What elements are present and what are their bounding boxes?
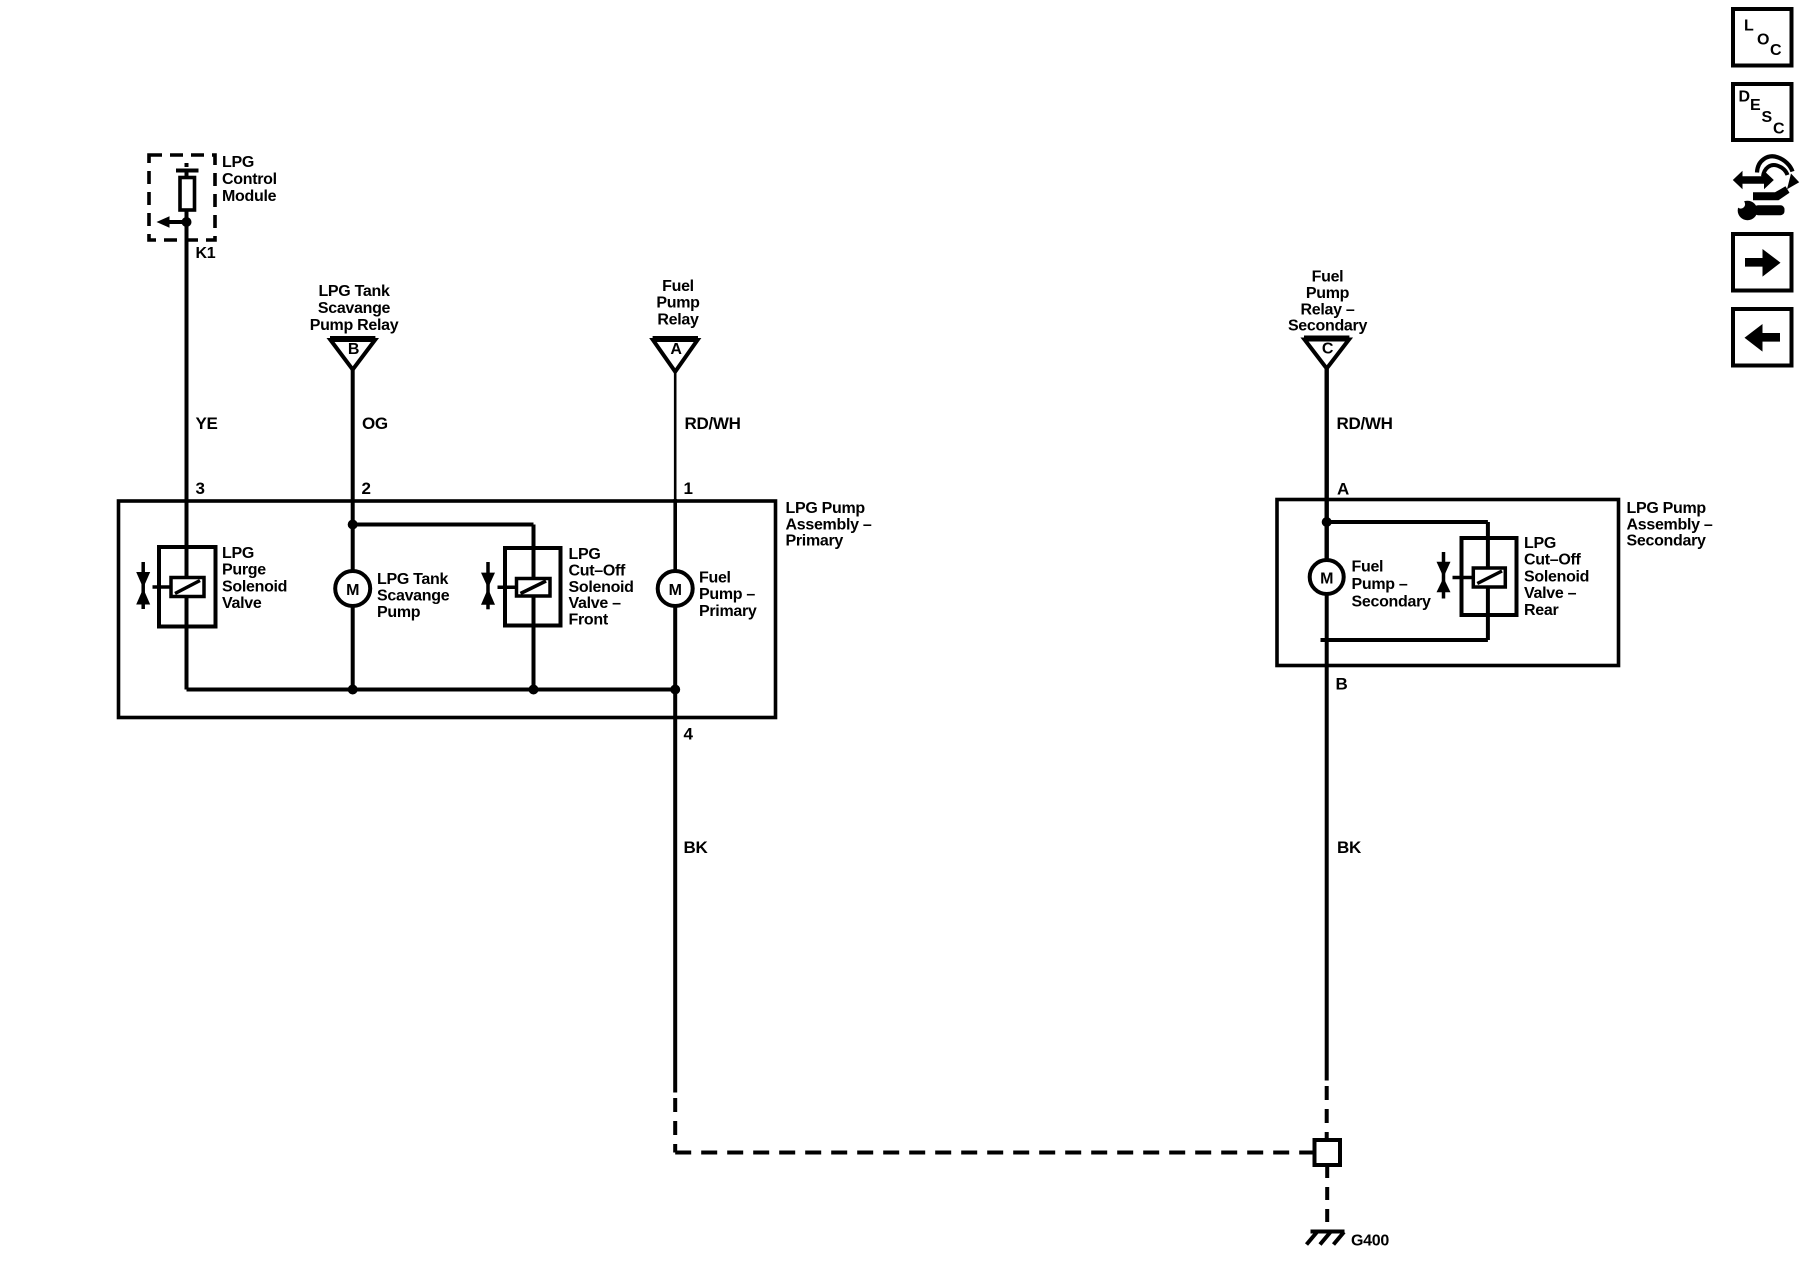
- relay coil K1 symbol: [176, 165, 199, 210]
- svg-text:RD/WH: RD/WH: [1337, 414, 1393, 433]
- label LPG Pump Assembly Primary: [786, 500, 872, 550]
- svg-text:Solenoid: Solenoid: [569, 579, 634, 596]
- svg-text:Pump: Pump: [377, 604, 421, 621]
- svg-text:M: M: [346, 582, 359, 599]
- svg-text:B: B: [348, 341, 359, 358]
- check valve arrows cut-off rear: [1437, 552, 1451, 599]
- wire motor2 bottom to bus: [351, 606, 355, 690]
- svg-text:Front: Front: [569, 612, 609, 629]
- svg-text:RD/WH: RD/WH: [685, 414, 741, 433]
- wire RD/WH vertical secondary: [1324, 368, 1328, 560]
- svg-text:Cut–Off: Cut–Off: [569, 562, 627, 579]
- label Fuel Pump Relay: [656, 278, 700, 329]
- svg-text:Pump: Pump: [1306, 285, 1350, 302]
- icon DESC box: [1733, 84, 1792, 140]
- label Fuel Pump Secondary: [1352, 559, 1432, 611]
- svg-text:OG: OG: [362, 414, 388, 433]
- svg-text:D: D: [1739, 89, 1750, 106]
- svg-text:S: S: [1762, 109, 1773, 126]
- svg-text:Assembly –: Assembly –: [1627, 516, 1713, 533]
- wire RD/WH vertical primary: [674, 371, 677, 501]
- svg-text:LPG: LPG: [1524, 535, 1556, 552]
- svg-text:Pump –: Pump –: [1352, 576, 1408, 593]
- svg-text:BK: BK: [1337, 838, 1362, 857]
- label LPG Control Module: [222, 154, 277, 205]
- junction dot bus at fuel pump: [670, 685, 680, 695]
- LPG Pump Assembly Secondary box: [1277, 500, 1619, 666]
- wire jumper from node 2 to cut-off valve front: [353, 525, 534, 579]
- icon back arrow box: [1733, 309, 1792, 366]
- svg-text:Module: Module: [222, 188, 277, 205]
- junction dot bus at cut-off valve: [529, 685, 539, 695]
- icon diagnostic navigation arrows and wrench: [1733, 156, 1799, 220]
- connector triangle C: [1304, 338, 1349, 369]
- svg-text:Secondary: Secondary: [1627, 533, 1707, 550]
- LPG Cut-Off Solenoid Valve Rear: [1453, 538, 1517, 615]
- junction dot node 2: [348, 520, 358, 530]
- label Fuel Pump Primary: [699, 570, 757, 621]
- svg-text:LPG Tank: LPG Tank: [377, 571, 448, 588]
- label LPG Pump Assembly Secondary: [1627, 500, 1713, 550]
- label LPG Tank Scavange Pump: [377, 571, 450, 621]
- svg-text:2: 2: [362, 479, 371, 498]
- svg-text:LPG Tank: LPG Tank: [318, 283, 389, 300]
- svg-text:LPG: LPG: [222, 545, 254, 562]
- svg-text:Cut–Off: Cut–Off: [1524, 552, 1582, 569]
- dashed BK wire down-left: [673, 1098, 677, 1153]
- svg-text:3: 3: [196, 479, 205, 498]
- svg-text:Assembly –: Assembly –: [786, 516, 872, 533]
- LPG Purge Solenoid Valve: [153, 547, 216, 627]
- svg-text:Solenoid: Solenoid: [1524, 568, 1589, 585]
- svg-text:Control: Control: [222, 171, 277, 188]
- svg-text:A: A: [1337, 480, 1349, 499]
- label LPG Cut-Off Solenoid Valve Front: [569, 546, 634, 629]
- svg-text:LPG Pump: LPG Pump: [786, 500, 866, 517]
- svg-text:Fuel: Fuel: [699, 570, 731, 587]
- svg-text:Fuel: Fuel: [662, 278, 694, 295]
- label LPG Purge Solenoid Valve: [222, 545, 287, 612]
- motor LPG Tank Scavange Pump: [335, 571, 370, 606]
- svg-text:B: B: [1336, 675, 1348, 694]
- svg-text:C: C: [1322, 341, 1334, 358]
- svg-text:Rear: Rear: [1524, 602, 1558, 619]
- svg-text:4: 4: [684, 725, 694, 744]
- svg-text:C: C: [1770, 42, 1782, 59]
- LPG Control Module dashed box: [149, 155, 215, 240]
- svg-text:Secondary: Secondary: [1352, 594, 1432, 611]
- svg-text:Relay: Relay: [657, 312, 699, 329]
- label LPG Tank Scavange Pump Relay: [310, 283, 399, 334]
- svg-text:M: M: [669, 582, 682, 599]
- label Fuel Pump Relay Secondary: [1288, 269, 1368, 335]
- wire pin 4 BK solid: [673, 606, 677, 1093]
- svg-text:LPG: LPG: [569, 546, 601, 563]
- svg-text:Fuel: Fuel: [1352, 559, 1384, 576]
- svg-text:O: O: [1757, 32, 1769, 49]
- svg-text:Scavange: Scavange: [377, 588, 450, 605]
- svg-text:A: A: [670, 341, 682, 358]
- junction dot control module: [182, 217, 192, 227]
- icon LOC box: [1733, 9, 1792, 66]
- arrow inside control module: [157, 216, 188, 228]
- svg-text:Pump: Pump: [656, 295, 700, 312]
- svg-text:Scavange: Scavange: [318, 300, 391, 317]
- label LPG Cut-Off Solenoid Valve Rear: [1524, 535, 1589, 619]
- wire B BK solid secondary: [1325, 593, 1329, 1081]
- dashed BK wire down to splice: [1325, 1086, 1329, 1140]
- icon forward arrow box: [1733, 234, 1792, 291]
- svg-text:LPG Pump: LPG Pump: [1627, 500, 1707, 517]
- motor Fuel Pump Secondary: [1310, 560, 1344, 594]
- junction dot bus at scavange pump: [348, 685, 358, 695]
- LPG Pump Assembly Primary box: [119, 501, 776, 718]
- check valve arrows purge: [136, 562, 150, 609]
- svg-text:L: L: [1744, 18, 1754, 35]
- LPG Cut-Off Solenoid Valve Front: [498, 548, 561, 690]
- connector triangle B: [330, 338, 375, 370]
- svg-text:Valve –: Valve –: [1524, 585, 1577, 602]
- dashed BK wire horizontal to splice: [675, 1151, 1314, 1155]
- svg-text:Primary: Primary: [786, 533, 844, 550]
- connector triangle A: [653, 338, 698, 372]
- svg-text:E: E: [1750, 97, 1761, 114]
- svg-text:C: C: [1773, 121, 1785, 138]
- svg-text:Purge: Purge: [222, 562, 266, 579]
- svg-text:G400: G400: [1351, 1233, 1389, 1250]
- inner loop wires secondary: [1321, 522, 1488, 640]
- svg-text:1: 1: [684, 479, 693, 498]
- svg-text:Fuel: Fuel: [1312, 269, 1344, 286]
- svg-text:Pump –: Pump –: [699, 586, 755, 603]
- svg-text:K1: K1: [196, 245, 216, 262]
- check valve arrows cut-off front: [481, 562, 495, 609]
- svg-text:BK: BK: [684, 838, 709, 857]
- svg-text:Valve: Valve: [222, 595, 262, 612]
- svg-text:Valve –: Valve –: [569, 595, 622, 612]
- splice square S: [1315, 1140, 1341, 1165]
- bottom bus wire primary: [187, 688, 676, 692]
- svg-text:Primary: Primary: [699, 603, 757, 620]
- svg-text:YE: YE: [196, 414, 218, 433]
- ground G400 symbol: [1307, 1232, 1345, 1245]
- svg-text:M: M: [1320, 571, 1333, 588]
- svg-text:Solenoid: Solenoid: [222, 578, 287, 595]
- svg-text:Pump Relay: Pump Relay: [310, 317, 399, 334]
- svg-text:LPG: LPG: [222, 154, 254, 171]
- motor Fuel Pump Primary: [658, 571, 693, 606]
- junction dot node A: [1322, 517, 1332, 527]
- dashed wire splice to ground: [1325, 1165, 1329, 1231]
- svg-text:Secondary: Secondary: [1288, 318, 1368, 335]
- wire OG vertical: [351, 369, 355, 571]
- wire YE K1 vertical: [185, 172, 189, 690]
- svg-text:Relay –: Relay –: [1301, 302, 1355, 319]
